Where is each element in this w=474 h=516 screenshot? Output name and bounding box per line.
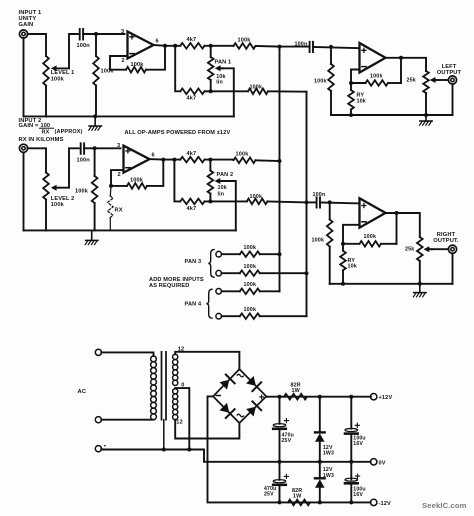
wire center tap down [175,388,189,449]
zener diode 12V 1W3 (positive) [315,397,325,462]
svg-text:PAN 1: PAN 1 [215,59,232,65]
label 100u 16V (negative) [353,487,365,499]
node input 2 shunt top [93,146,97,150]
capacitor 470u 25V (negative reservoir) [273,462,288,503]
node U1b output [161,158,165,162]
svg-text:4k7: 4k7 [187,96,197,102]
transformer T1 secondary lower winding [173,389,178,394]
wire U2a output [386,58,427,71]
svg-text:0V: 0V [379,460,386,466]
wire feedback to inverting input (right) [343,225,360,244]
text label LEFT OUTPUT [437,64,462,76]
resistor 82R 1W (negative) [288,488,310,505]
node branch to lower 4k7 (2) [172,158,176,162]
input jack PAN3 right [216,270,222,276]
brace PAN 3 inputs [208,249,214,277]
AC terminal 1 [95,349,101,355]
node RX top [109,184,113,188]
resistor 4k7 (input 1 right) [180,89,204,102]
capacitor 100u 16V (negative output) [345,462,360,502]
wire jack2 sleeve down [23,152,25,230]
node negative rail zener [318,500,322,504]
capacitor 100n (input 2 coupling) [77,143,91,163]
label 12V 1W3 (positive zener) [323,445,334,457]
node ground bus 100k [93,114,97,118]
op-amp U1b (input 2 buffer) [124,146,150,173]
node branch to lower 4k7 [173,44,177,48]
node 0V rail 470u [278,460,282,464]
resistor 100k (PAN3 left) [240,245,260,257]
capacitor 100n (left summing) [295,42,314,52]
wire bus B to right sum cap [307,201,316,203]
wire feedback U1b inverting input [111,170,127,186]
svg-text:100k: 100k [75,189,89,195]
wire screen to earth [163,420,165,450]
svg-text:100n: 100n [295,42,308,48]
node PAN2 top [208,158,212,162]
op-amp U2b (right summing) [360,198,386,228]
mark near earth terminal [104,445,106,447]
resistor 4k7 (input 2 left) [180,151,204,162]
wire feedback to output [146,46,165,70]
wire 4k7 to 100k left [205,45,234,47]
wire LEVEL2 wiper to cap [58,148,79,187]
node left amp input shunt [329,45,333,49]
input jack PAN4 right [216,313,222,319]
junction node at 100k shunt top [94,32,98,36]
label PAN 2 10k lin [217,172,234,197]
resistor 100k (PAN4 left) [240,282,260,294]
node negative rail 100u [349,500,353,504]
node 25k bottom [424,113,428,117]
node U2a output [399,56,403,60]
wire to bus A (PAN3 left) [260,253,280,255]
input jack PAN3 left [216,251,222,257]
wire left jack to ground bus [452,84,454,115]
transformer core [162,352,167,420]
resistor 100k (U2b feedback) [360,234,382,246]
node screen earth [162,448,166,452]
wire primary bottom to AC2 [101,419,153,421]
ground (input 1) [89,116,102,130]
svg-text:LEVEL 1: LEVEL 1 [51,70,75,76]
node RY top left [349,81,353,85]
svg-text:100k: 100k [244,282,257,288]
transformer T1 primary winding [151,356,157,362]
svg-text:GAIN =: GAIN = [19,123,40,129]
wire AC1 to primary [101,352,153,356]
svg-text:1W: 1W [293,494,302,500]
resistor 100k (input 2 shunt) [75,148,97,230]
node 0V rail 100u [349,460,353,464]
svg-text:(APPROX): (APPROX) [55,129,83,135]
node PAN2 bottom [208,199,212,203]
resistor 82R 1W (positive) [284,382,307,399]
text label INPUT 1 UNITY GAIN [19,10,42,28]
wire U2a feedback right side [400,58,402,83]
svg-text:1W3: 1W3 [323,451,334,457]
svg-text:100k: 100k [244,307,257,313]
svg-text:3: 3 [117,143,120,149]
svg-text:100k: 100k [244,245,257,251]
wire to bus B (PAN3 right) [260,272,307,274]
svg-text:100k: 100k [130,177,144,183]
svg-text:100k: 100k [250,194,263,200]
node right amp input shunt [328,200,332,204]
potentiometer 25k (left output level) [407,71,439,115]
svg-text:PAN 4: PAN 4 [185,302,203,308]
text note ADD MORE INPUTS AS REQUIRED [149,277,204,289]
op-amp U1a (input 1 buffer) [128,32,154,59]
node bus B PAN3 [305,271,309,275]
wire bridge plus to positive rail [266,396,371,398]
ground (left output) [420,115,433,125]
output jack right [448,245,456,253]
input jack J1 (input 1) [19,30,27,38]
svg-text:RX: RX [42,129,50,135]
svg-text:10k: 10k [218,185,227,191]
svg-text:10k: 10k [348,264,357,270]
wire jack to resistor (PAN3 right) [222,272,240,274]
label RY 10k [357,93,366,105]
resistor 100k (right amp input shunt) [312,202,333,283]
label 470u 25V (negative) [264,486,276,498]
svg-text:lin: lin [216,80,223,86]
wire jack to resistor (PAN4 left) [222,290,240,292]
wire earth terminal to 0V rail [101,449,370,462]
wire U1a output [154,44,181,47]
label LEVEL 2 100k [51,196,75,208]
resistor 100k (U1b feedback) [127,177,147,188]
svg-text:lin: lin [218,191,225,197]
svg-text:100k: 100k [250,85,263,91]
right mixing bus B [306,92,308,317]
svg-text:12: 12 [176,420,183,426]
wire secondary top to bridge [175,352,239,369]
svg-text:100k: 100k [312,238,325,244]
node 100u top [349,395,353,399]
wire cap to right summing amp [320,202,360,203]
svg-text:100n: 100n [77,43,91,49]
svg-text:100k: 100k [236,152,250,158]
node bus A input2 [278,159,282,163]
svg-text:1W3: 1W3 [323,473,334,479]
resistor 100k (PAN3 right) [240,264,260,276]
svg-text:OUTPUT: OUTPUT [437,70,462,76]
wire 25k wiper to left output jack [437,79,449,81]
wire to 100k left (2) [205,159,234,161]
svg-text:6: 6 [152,153,155,159]
svg-text:25V: 25V [282,438,292,444]
node bus A top [278,45,282,49]
svg-text:16V: 16V [353,441,363,447]
node 0V rail zener [318,460,322,464]
left mixing bus A [279,47,281,292]
svg-text:100n: 100n [77,157,91,163]
input jack PAN4 left [216,289,222,295]
input 1 ground bus [24,115,234,117]
wire branch down to lower 4k7 [175,46,180,92]
left output section ground bus [331,114,453,116]
svg-text:4k7: 4k7 [187,151,197,157]
wire to bus B (2) [267,201,306,202]
potentiometer LEVEL 2 100k [43,173,59,231]
svg-text:AC: AC [78,389,87,395]
svg-text:16V: 16V [353,492,363,498]
wire feedback U1a inverting input [110,56,128,70]
node RY right top [341,242,345,246]
svg-text:1W: 1W [292,388,301,394]
node 470u top [278,395,282,399]
node RY bottom [349,113,353,117]
node bus A PAN3 [278,252,282,256]
wire to bus A end (PAN4 left) [260,290,280,292]
node U2b output [395,211,399,215]
resistor 100k (left amp input shunt) [314,47,334,115]
resistor 4k7 (input 2 right) [180,199,204,212]
wire 4k7 to 100k right (2) [205,200,247,202]
resistor 100k (U2a feedback) [366,73,389,85]
wire cap2 to opamp [84,147,120,149]
resistor 100k (U1a feedback) [126,62,146,72]
label PAN 1 10k lin [215,59,232,85]
svg-text:100k: 100k [364,234,377,240]
wire to bus A (2) [256,159,280,162]
resistor 4k7 (input 1 left) [180,37,204,48]
wire branch down to lower 4k7 (2) [174,160,180,202]
capacitor 100n (input 1 coupling) [77,29,91,49]
transformer T1 secondary upper winding [173,354,178,359]
svg-text:100k: 100k [51,76,65,82]
resistor 100k (input 2 to right bus) [247,194,268,204]
wire PAN2 wiper to ground bus 2 [221,181,236,230]
svg-text:-12V: -12V [379,501,392,507]
wire cap to left summing amp [313,47,360,48]
resistor RY 10k (right) [340,244,346,284]
wire right jack to ground bus [452,253,454,283]
input jack J2 (input 2) [19,144,27,152]
svg-text:RX IN KILOHMS: RX IN KILOHMS [19,137,64,143]
capacitor 470u 25V (positive reservoir) [273,397,288,462]
node zener top [318,395,322,399]
wire LEVEL1 wiper to coupling cap [58,34,78,68]
right output section ground bus [330,283,453,285]
svg-text:AS REQUIRED: AS REQUIRED [149,283,190,289]
wire cap to opamp pin 3 [83,33,124,35]
svg-text:100k: 100k [131,62,145,68]
resistor 100k (input 1 to left bus) [234,37,256,48]
node center tap earth [187,448,191,452]
resistor 100k (input 1 shunt to ground) [93,34,114,116]
resistor RY 10k (left) [348,83,354,115]
wire secondary bottom to bridge [175,420,239,439]
node negative rail 470u [278,500,282,504]
capacitor 100u 16V (positive output) [345,397,359,462]
wire to right bus B [268,90,307,92]
resistor 100k (input 2 to left bus) [234,152,256,164]
resistor RX (gain set, dashed) [108,186,114,231]
wire jack2 to level pot [28,148,46,172]
AC terminal 2 [95,417,101,423]
terminal +12V [371,394,377,400]
label 100u 16V (positive) [353,436,365,448]
wire PAN1 wiper to ground bus [222,68,234,116]
node bus B right cap [305,200,309,204]
output jack left [448,76,456,84]
text label INPUT 2 GAIN equation [19,118,83,135]
wire jack to resistor (PAN4 right) [222,315,240,317]
svg-text:+12V: +12V [379,395,393,401]
brace PAN 4 inputs [206,289,212,318]
wire feedback2 to output [147,160,163,186]
wire jack1 to level pot top [28,34,46,56]
wire jack1 sleeve down [23,38,25,116]
svg-text:25k: 25k [407,77,416,83]
svg-text:100k: 100k [51,202,65,208]
svg-text:PAN 3: PAN 3 [185,259,202,265]
wire U2b feedback right side [396,213,398,244]
ground (input 2) [85,230,98,244]
svg-text:SeekIC.com: SeekIC.com [422,501,467,510]
node RY right bottom [341,282,345,286]
svg-text:100n: 100n [313,192,326,198]
node 25k right bottom [418,282,422,286]
op-amp U2a (left summing) [360,43,386,73]
svg-text:100k: 100k [314,79,327,85]
node U1a output [163,44,167,48]
terminal -12V [371,499,377,505]
svg-text:OUTPUT.: OUTPUT. [433,238,459,244]
wire 4k7 right to 100k [205,90,249,92]
wire to bus B end (PAN4 right) [260,315,307,317]
label 12V 1W3 (negative zener) [323,467,334,479]
svg-text:4k7: 4k7 [187,206,197,212]
potentiometer 25k (right output level) [405,237,432,284]
wire bus A to left sum cap [280,46,309,48]
label RY 10k (right) [348,258,357,270]
resistor 100k (PAN4 right) [240,307,260,319]
svg-text:2: 2 [122,58,125,64]
potentiometer LEVEL 1 100k [43,56,59,116]
capacitor 100n (right summing) [313,192,326,207]
svg-text:25V: 25V [264,492,274,498]
svg-text:25k: 25k [405,247,414,253]
node PAN1 top [209,44,213,48]
potentiometer PAN 2 10k lin [208,160,223,202]
wire bridge minus to negative rail [208,396,371,502]
label LEVEL 1 100k [51,70,75,82]
zener diode 12V 1W3 (negative) [315,462,325,503]
svg-text:RX: RX [115,207,123,213]
label 470u 25V [282,433,294,445]
resistor 100k (input 1 to right bus) [248,85,268,95]
wire 25k wiper to right output jack [430,248,448,250]
svg-text:100k: 100k [238,37,252,43]
node PAN1 bottom [209,89,213,93]
wire U1b output [150,158,181,161]
bridge rectifier D1-D4 [213,369,266,423]
svg-text:100k: 100k [244,264,257,270]
wire feedback to inverting input [351,70,366,84]
svg-text:2: 2 [118,172,121,178]
svg-text:6: 6 [156,39,159,45]
potentiometer PAN 1 10k lin [208,46,223,92]
svg-text:10k: 10k [357,98,366,104]
wire jack to resistor [222,253,240,255]
text label RIGHT OUTPUT [433,232,459,244]
terminal 0V [371,459,377,465]
svg-text:PAN 2: PAN 2 [217,172,234,178]
wire U2b output [386,213,420,237]
ground (right output) [413,284,426,297]
svg-text:GAIN: GAIN [19,22,34,28]
svg-text:4k7: 4k7 [187,37,197,43]
svg-text:ALL OP-AMPS POWERED FROM ±12V: ALL OP-AMPS POWERED FROM ±12V [125,130,231,136]
svg-text:3: 3 [121,29,124,35]
input 2 ground bus [24,229,236,231]
AC terminal 3 (earth) [95,446,101,452]
wire to left bus A [256,45,280,48]
svg-text:100k: 100k [370,73,383,79]
